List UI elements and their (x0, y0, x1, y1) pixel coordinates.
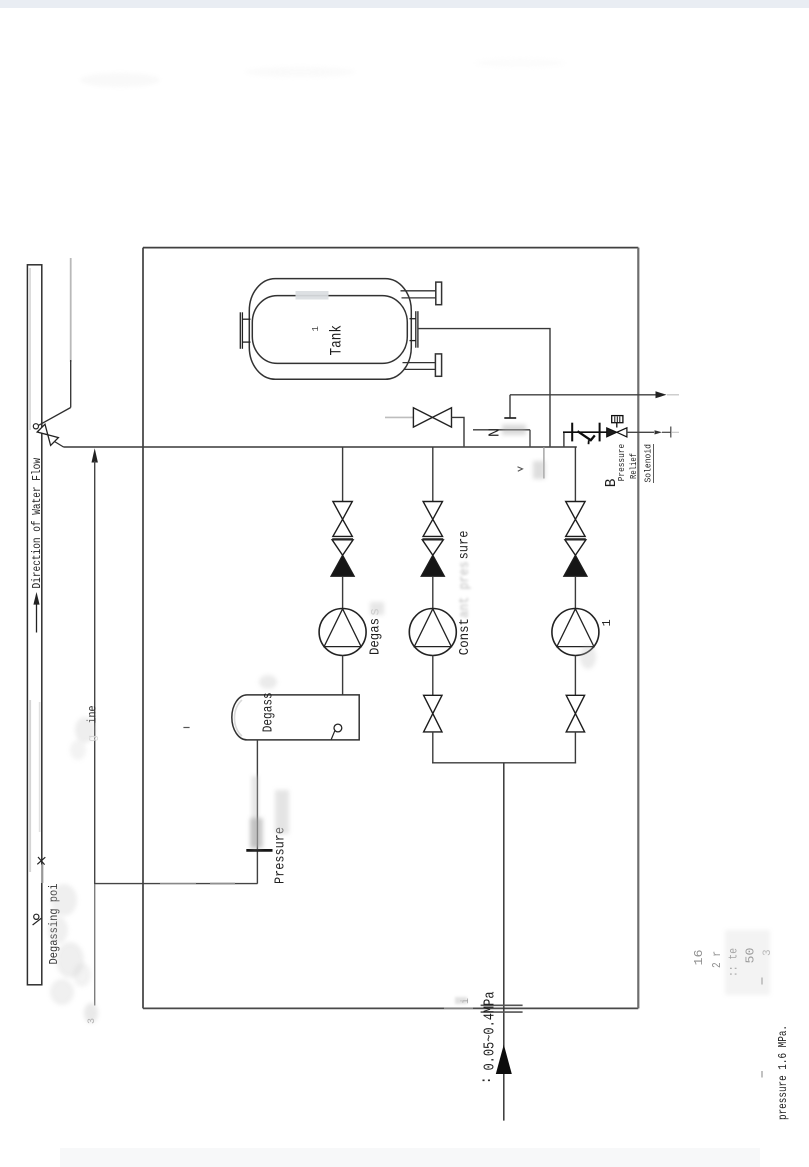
branch 1 pipe (342, 447, 344, 502)
svg-text:Const: Const (458, 618, 473, 655)
gauge ghost smudges (250, 776, 289, 848)
wire riser to header valve (39, 258, 71, 425)
label Degass (259, 675, 277, 732)
svg-text:2 r: 2 r (710, 951, 724, 968)
svg-text::: : (479, 1076, 495, 1084)
label Solenoid (644, 444, 654, 483)
label Tank (311, 325, 346, 356)
degasser outlet pipe (256, 740, 258, 884)
faded stub node (518, 447, 546, 479)
pipe to manifold (574, 732, 576, 764)
pressure gauge bar (246, 849, 272, 852)
pressure tap pipe (95, 883, 258, 885)
svg-text:3: 3 (87, 1018, 98, 1024)
label Degas (369, 608, 384, 655)
valve V2 bowtie (332, 502, 353, 539)
pipe (342, 576, 344, 608)
label ine (85, 706, 99, 743)
svg-text:sure: sure (457, 531, 472, 560)
tank T1 vessel (249, 279, 411, 380)
svg-text:ant pres: ant pres (458, 561, 473, 618)
pressure relief valve B (563, 423, 607, 445)
svg-text:Direction of Water Flow: Direction of Water Flow (30, 457, 44, 588)
wall coupling (481, 1005, 523, 1012)
check valve CV3 (564, 540, 587, 576)
svg-text:pressure 1.6 MPa.: pressure 1.6 MPa. (776, 1025, 790, 1120)
branch 2 pipe (432, 447, 434, 502)
valve V3 bowtie (422, 502, 443, 539)
scan bottom shading (60, 1148, 760, 1167)
label Pressure Relief (617, 444, 639, 482)
valve V4 bowtie (424, 695, 442, 732)
svg-text:1: 1 (311, 326, 321, 331)
branch 3 pipe (574, 447, 576, 502)
flow arrow in header (33, 592, 39, 633)
relief outlet line (627, 427, 679, 438)
tank outlet pipe (418, 329, 550, 447)
svg-text:Pressure: Pressure (617, 444, 627, 482)
svg-text:1: 1 (600, 619, 614, 626)
equipment enclosure box (143, 248, 638, 1009)
svg-text:Relief: Relief (629, 453, 639, 479)
tank top nozzle (401, 282, 442, 305)
small drain cock circle on header (33, 914, 42, 925)
svg-text:N: N (487, 428, 504, 437)
svg-text:Solenoid: Solenoid (644, 444, 654, 483)
degassing header pipe (27, 265, 41, 985)
label Degassing poi (48, 883, 61, 964)
suction manifold (432, 762, 576, 764)
degasser level tap (331, 724, 342, 739)
svg-text:0.05~0.4MPa: 0.05~0.4MPa (483, 991, 499, 1070)
outlet line with arrow (510, 391, 679, 398)
ghost arrow shaft (42, 865, 44, 884)
faded note fragments (692, 930, 774, 995)
pump3 scan smudge (580, 645, 596, 669)
tank scan patch (296, 291, 329, 300)
pump P1 (319, 609, 366, 656)
svg-text:16: 16 (692, 950, 706, 966)
small x-mark valve on header edge (37, 857, 45, 865)
scan top strip (0, 0, 809, 8)
main top pipe (64, 446, 577, 448)
return line arrow (92, 448, 98, 1005)
node N line (473, 425, 530, 447)
tank left flange (240, 312, 250, 349)
pipe to manifold (432, 732, 434, 764)
valve V5 bowtie (565, 502, 586, 539)
tank right flange (410, 311, 418, 348)
supply riser (496, 763, 512, 1121)
pipe (432, 576, 434, 608)
tank bottom nozzle (403, 354, 442, 376)
misc scan smudges (48, 59, 565, 1024)
svg-text:Pressure: Pressure (274, 827, 289, 884)
capped tap (504, 395, 516, 418)
check valve CV2 (421, 540, 444, 576)
pump P2 (409, 609, 456, 656)
gate valve V1 (385, 408, 464, 447)
header diagonal bowtie valve (37, 424, 63, 447)
check valve CV1 (331, 540, 354, 576)
label Direction of Water Flow (30, 457, 44, 588)
pump P3 (552, 609, 599, 656)
pipe (574, 576, 576, 608)
svg-text:Degass: Degass (262, 692, 277, 732)
label Constant pressure (457, 531, 472, 656)
step up to relief line (563, 432, 565, 446)
label pressure 1.6 MPa (762, 1025, 790, 1120)
solenoid valve (607, 416, 627, 437)
pipe pump1 to degasser (342, 656, 344, 695)
label 0.05~0.4MPa (455, 991, 499, 1084)
header scan streaks (29, 268, 40, 872)
degasser D1 vessel (232, 695, 359, 740)
valve V6 bowtie (566, 695, 584, 732)
header valve circle (33, 424, 38, 429)
pipe pump3 down (574, 656, 576, 696)
svg-text:Tank: Tank (328, 325, 346, 356)
pipe pump2 down (432, 656, 434, 696)
svg-text:Degas: Degas (369, 618, 384, 655)
